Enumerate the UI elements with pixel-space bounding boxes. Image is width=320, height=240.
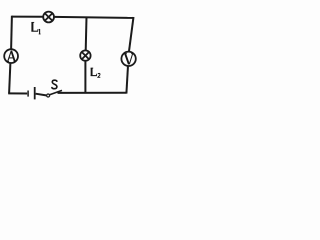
battery long plate [34,87,36,99]
wire battery to switch [36,94,47,96]
wire L2 branch upper [85,17,88,51]
battery short plate [27,91,29,97]
switch S lever [50,90,62,94]
wire left vertical upper [10,16,13,50]
ammeter A [4,49,18,63]
label S (switch) [52,80,57,89]
wire bottom-left segment [8,92,27,94]
label L1 [31,22,40,34]
voltmeter V [121,52,135,66]
wire top-left segment [12,16,44,18]
wire bottom-right segment [58,92,127,94]
wire right vertical lower [126,66,128,94]
switch S hinge [47,94,50,97]
label L2 [91,68,101,77]
lamp L2 [80,50,90,60]
label A (ammeter) [7,51,16,62]
wire L2 branch lower [84,60,86,92]
lamp L1 [43,12,54,23]
wire right vertical upper [129,17,134,52]
wire top-right segment [54,17,134,18]
wire left vertical lower [9,63,10,94]
label V (voltmeter) [124,54,134,65]
